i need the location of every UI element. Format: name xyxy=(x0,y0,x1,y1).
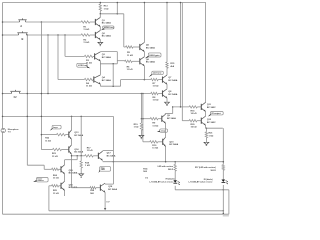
resistor R1 label xyxy=(83,26,89,31)
resistor R20 label xyxy=(191,124,197,129)
wire bus C row to R8 xyxy=(20,93,151,95)
transistor Q2 xyxy=(95,30,100,39)
svg-text:IR (diode): IR (diode) xyxy=(204,179,213,181)
resistor R19 (to ground) xyxy=(140,119,142,131)
resistor R26 label xyxy=(90,190,95,195)
svg-text:10 kΩ: 10 kΩ xyxy=(191,113,197,115)
wire keying line B (right) to R2 xyxy=(27,34,82,36)
node C label xyxy=(14,97,18,99)
wire microphone row xyxy=(2,116,114,118)
resistor R6 label xyxy=(127,66,133,71)
wire LED1 down and right xyxy=(175,186,229,191)
callout keyer xyxy=(33,178,48,183)
resistor R18 label xyxy=(85,162,90,167)
wire Q13 base row xyxy=(41,134,57,136)
resistor R23 label xyxy=(52,153,58,158)
wire Q2 emitter down xyxy=(99,40,101,43)
wire bus x65 to Q3 base row xyxy=(65,35,84,56)
wire Q16 emitter stub xyxy=(64,191,66,197)
svg-text:BC 546A: BC 546A xyxy=(102,56,111,59)
wire LED2 down to ground rail xyxy=(223,185,225,214)
transistor Q8 label xyxy=(168,91,177,96)
resistor R21 (emitter) xyxy=(205,128,207,142)
transistor Q17 xyxy=(98,151,102,160)
wire bottom ground rail (frame bottom) xyxy=(3,213,229,215)
svg-text:IR output: IR output xyxy=(212,112,221,115)
svg-text:BC 546A: BC 546A xyxy=(102,35,111,38)
svg-text:11 kΩ: 11 kΩ xyxy=(152,125,158,127)
svg-text:amp: amp xyxy=(161,130,166,132)
svg-text:L-7113SA-BT built-in resistor: L-7113SA-BT built-in resistor xyxy=(188,181,212,184)
transistor Q9 xyxy=(162,114,166,123)
svg-text:B: B xyxy=(22,37,24,41)
transistor Q9 label xyxy=(167,115,176,120)
callout keyed tone xyxy=(149,71,164,77)
resistor R17 xyxy=(85,155,99,157)
transistor Q3 label xyxy=(102,54,111,59)
svg-text:11 kΩ: 11 kΩ xyxy=(87,150,93,152)
wire x117 top drop xyxy=(117,2,119,14)
wire Q9 emitter to Q10 collector xyxy=(165,123,167,137)
transistor Q12 xyxy=(201,116,205,125)
wire R15 to Q7 collector xyxy=(166,68,168,75)
wire x167 V+ drop xyxy=(166,2,168,62)
wire x228.9 drop to ground rail xyxy=(228,190,230,214)
wire Q1 emitter to Q2 collector xyxy=(99,27,101,31)
ground below R19 xyxy=(139,135,144,138)
resistor R2 label xyxy=(83,39,89,44)
resistor R5 label xyxy=(127,52,133,57)
resistor R9 xyxy=(150,118,162,120)
wire Q14 base row xyxy=(41,148,52,151)
wire bus C row (left) xyxy=(2,93,12,95)
svg-text:BC 546A: BC 546A xyxy=(146,46,155,49)
resistor R6 xyxy=(125,60,140,62)
wire B-bus corner to Q15 row xyxy=(27,165,51,169)
transistor Q16 label xyxy=(69,185,78,190)
wire keying line B (left) xyxy=(2,34,19,36)
svg-text:10 kΩ: 10 kΩ xyxy=(191,127,197,129)
resistor R22 label xyxy=(45,138,51,143)
wire Q8 emitter down xyxy=(166,98,168,102)
resistor R15 (collector load) xyxy=(166,62,168,68)
transistor Q8 xyxy=(163,89,168,98)
wire Q9 base row xyxy=(141,118,151,120)
transistor Q17 label xyxy=(107,153,116,158)
svg-text:11 kΩ: 11 kΩ xyxy=(86,86,92,88)
resistor R19 label xyxy=(134,124,139,129)
node A label xyxy=(20,24,22,28)
wire x180 V+ drop xyxy=(180,2,182,107)
wire Q7 emitter to Q8 collector xyxy=(166,84,168,89)
svg-text:BC 546A: BC 546A xyxy=(108,188,117,191)
wire x120 up to Q7 row xyxy=(121,79,151,86)
transistor Q2 label xyxy=(102,33,111,38)
wire Q14 emitter down xyxy=(71,154,73,188)
svg-text:A: A xyxy=(20,24,22,28)
wire Q1 collector up xyxy=(99,14,101,18)
svg-text:BC 546A: BC 546A xyxy=(107,154,116,157)
wire mic drop to Q17 base xyxy=(80,116,82,155)
wire Q15 emitter to Q16 collector xyxy=(64,174,66,181)
transistor Q13 xyxy=(69,130,72,139)
wire R19 ground stem xyxy=(140,130,142,135)
LED D2 label xyxy=(188,179,212,184)
svg-text:keys: keys xyxy=(101,168,105,170)
transistor Q11 label xyxy=(207,104,216,109)
svg-text:11 kΩ: 11 kΩ xyxy=(127,55,133,57)
wire x117 mid drop xyxy=(116,52,118,64)
wire left supply rail (frame left) xyxy=(2,3,4,215)
svg-text:BC 546A: BC 546A xyxy=(69,172,78,175)
svg-text:BC 549C: BC 549C xyxy=(207,106,216,109)
svg-text:R17 (LED with resistor): R17 (LED with resistor) xyxy=(195,166,216,169)
transistor Q6 xyxy=(140,57,145,66)
resistor R22 xyxy=(57,133,69,135)
callout LOW batt xyxy=(50,125,61,130)
wire x48.9 to bottom bus xyxy=(48,186,50,211)
svg-text:1 kΩ: 1 kΩ xyxy=(134,127,139,129)
callout LOW freq xyxy=(77,63,90,68)
svg-text:BC 546A: BC 546A xyxy=(168,93,177,96)
resistor R7 label xyxy=(153,83,159,88)
resistor R13 (collector load) xyxy=(99,2,101,14)
svg-text:11 kΩ: 11 kΩ xyxy=(83,29,89,31)
svg-text:1 kΩ: 1 kΩ xyxy=(104,8,109,10)
wire bus from node B down-left column xyxy=(26,35,28,165)
wire bus x58 to Q4 base row xyxy=(58,35,84,80)
transistor Q7 label xyxy=(168,77,177,82)
wire Q10 base row xyxy=(143,141,150,143)
svg-text:1 kΩ: 1 kΩ xyxy=(85,165,90,167)
wire Q18 emitter to bus with arrow xyxy=(104,192,106,210)
svg-text:BC 549C: BC 549C xyxy=(207,121,216,124)
resistor R2 xyxy=(81,34,95,36)
resistor R12 right note xyxy=(195,166,216,172)
wire keying line A (right) to R1 xyxy=(26,21,82,23)
resistor R20 xyxy=(189,120,201,122)
resistor R7 xyxy=(151,78,163,80)
wire Q11 base row xyxy=(173,106,189,108)
wire x182 V+ drop xyxy=(181,3,183,121)
resistor R4 label xyxy=(86,82,92,88)
transistor Q1 xyxy=(95,17,100,26)
wire Q4 emitter route xyxy=(100,84,120,87)
svg-text:11 kΩ: 11 kΩ xyxy=(152,148,158,150)
transistor Q16 xyxy=(61,181,65,190)
wire LED1 branch top xyxy=(174,162,176,165)
resistor R9 label xyxy=(152,123,158,128)
wire Q13 emitter to Q14 collector xyxy=(71,139,73,145)
svg-text:BC 546A: BC 546A xyxy=(168,79,177,82)
resistor R24 label xyxy=(53,174,59,180)
resistor R5 xyxy=(124,46,140,48)
wire Q11 emitter to Q12 collector xyxy=(205,112,207,117)
wire x113 drop xyxy=(112,64,114,86)
wire LED2 branch xyxy=(223,128,225,164)
wire bottom-right stub xyxy=(223,215,229,217)
transistor Q13 label xyxy=(74,132,83,137)
wire right V+ drop to Q11 collector xyxy=(205,3,207,103)
svg-text:HIGH freq: HIGH freq xyxy=(104,26,114,29)
svg-text:BC 546A: BC 546A xyxy=(102,22,111,25)
wire Q17 base row xyxy=(71,155,85,157)
wire Q12 emitter down xyxy=(206,125,223,129)
wire Q17 emitter output row xyxy=(103,161,224,163)
wire Q17 collector corner xyxy=(103,149,114,151)
pushbutton switch B xyxy=(17,31,27,35)
wire P2 inter-stage tap xyxy=(100,63,117,65)
wire bus from node A down xyxy=(40,22,42,149)
svg-text:560 Ω: 560 Ω xyxy=(211,170,217,172)
resistor R17 label xyxy=(87,148,93,153)
callout LM386 xyxy=(157,129,168,132)
wire Q12 base row xyxy=(182,120,189,122)
wire Q5 collector rail to top xyxy=(144,2,146,43)
svg-text:LOW freq: LOW freq xyxy=(78,64,88,67)
wire top V+ rail (frame top) xyxy=(3,2,206,4)
resistor R8 xyxy=(151,92,163,94)
svg-text:BC 546A: BC 546A xyxy=(74,134,83,137)
svg-text:HIGH gain: HIGH gain xyxy=(149,55,160,57)
wire Q6 emitter down to Q7 row xyxy=(143,66,145,80)
ground below Q2 xyxy=(98,42,103,45)
transistor Q12 label xyxy=(207,119,216,124)
resistor R1 xyxy=(81,21,95,23)
wire x141 drop xyxy=(140,94,142,119)
transistor Q14 xyxy=(69,145,72,154)
resistor R10 xyxy=(150,141,163,143)
resistor R15 label xyxy=(170,63,175,68)
svg-text:11 kΩ: 11 kΩ xyxy=(53,178,59,180)
pushbutton switch A xyxy=(18,18,26,22)
wire Q13 collector rail up xyxy=(71,116,73,130)
svg-text:add tone: add tone xyxy=(153,72,163,75)
resistor R23 xyxy=(53,148,69,150)
ground below R21 xyxy=(204,142,209,145)
svg-text:11 kΩ: 11 kΩ xyxy=(53,193,59,195)
resistor R18 (bias to ground) xyxy=(80,156,82,174)
svg-text:LED with resistor: LED with resistor xyxy=(158,165,174,168)
transistor Q5 label xyxy=(146,45,155,50)
wire x123 drop from Q1 feed xyxy=(123,14,125,47)
transistor Q18 xyxy=(100,183,105,192)
resistor R11 right note xyxy=(158,165,174,171)
resistor R24 xyxy=(52,168,61,170)
wire bottom signal bus xyxy=(49,210,224,212)
svg-text:BC 546A: BC 546A xyxy=(167,117,176,120)
svg-text:L-7113SA-BT built-in resistor: L-7113SA-BT built-in resistor xyxy=(149,181,173,184)
ground below R18 xyxy=(79,174,84,177)
microphone MIC1 xyxy=(1,128,5,132)
transistor Q11 xyxy=(201,102,205,111)
transistor Q6 label xyxy=(146,59,155,64)
svg-text:11 kΩ: 11 kΩ xyxy=(127,69,133,71)
LED D2 (IR) xyxy=(222,180,228,185)
node B label xyxy=(22,37,24,41)
transistor Q15 xyxy=(61,165,65,174)
svg-text:keyer: keyer xyxy=(38,178,43,180)
LED D1 (red) xyxy=(173,180,179,185)
wire mic row corner down xyxy=(112,116,114,161)
resistor R13 value label xyxy=(104,6,109,11)
transistor Q14 label xyxy=(74,148,83,154)
wire bus x48 xyxy=(47,35,49,94)
wire Q18 collector link xyxy=(105,161,113,184)
wire Q1 collector feed xyxy=(100,13,124,15)
microphone MIC1 label xyxy=(8,129,19,134)
wire Q10 emitter down to output row xyxy=(165,146,167,161)
resistor R4 xyxy=(84,78,93,80)
resistor R25 label xyxy=(53,190,59,195)
transistor Q15 label xyxy=(69,170,78,175)
wire Q16 base row xyxy=(49,185,52,187)
resistor R16 xyxy=(189,106,201,108)
svg-text:BC 546A: BC 546A xyxy=(102,79,111,82)
wire Q15 collector link xyxy=(65,156,78,165)
resistor R25 xyxy=(52,185,61,187)
transistor Q4 label xyxy=(102,76,111,82)
callout IR out xyxy=(208,112,223,117)
transistor Q10 xyxy=(163,137,166,146)
pushbutton switch C xyxy=(10,90,20,94)
transistor Q18 label xyxy=(108,186,117,191)
callout to speaker xyxy=(98,167,110,173)
transistor Q3 xyxy=(95,52,101,61)
wire x142.9 drop xyxy=(142,94,144,142)
wire Q3 emitter to Q4 collector xyxy=(99,61,101,75)
resistor R10 label xyxy=(152,145,158,150)
callout MIC gain xyxy=(145,53,161,59)
wire R11 to LED1 xyxy=(174,171,176,180)
transistor Q5 xyxy=(140,42,145,51)
svg-text:560 Ω: 560 Ω xyxy=(168,169,174,171)
svg-text:BC 546A: BC 546A xyxy=(74,151,83,154)
resistor R11 label xyxy=(143,167,148,173)
resistor R3 label xyxy=(86,60,92,65)
svg-text:11 kΩ: 11 kΩ xyxy=(45,140,51,142)
node 0V label xyxy=(106,202,110,204)
resistor R21 label xyxy=(209,133,214,138)
transistor Q1 label xyxy=(102,20,111,25)
wire keying line A (left) xyxy=(2,21,20,23)
resistor R3 xyxy=(84,55,94,57)
svg-text:BC 546A: BC 546A xyxy=(146,61,155,64)
transistor Q10 label xyxy=(169,141,178,146)
svg-text:1 kΩ: 1 kΩ xyxy=(209,135,214,137)
resistor R11 (LED1 series) xyxy=(174,165,176,172)
svg-text:BC 546A: BC 546A xyxy=(169,143,178,146)
wire to R6 row xyxy=(117,60,124,63)
transistor Q7 xyxy=(163,75,168,84)
wire Q14 emitter corner to Q18 base xyxy=(72,187,91,189)
resistor R26 xyxy=(90,187,100,189)
svg-text:11 kΩ: 11 kΩ xyxy=(52,156,58,158)
resistor R16 label xyxy=(191,110,197,115)
wire Q3 collector top link xyxy=(100,51,117,53)
svg-text:11 kΩ: 11 kΩ xyxy=(153,86,159,88)
LED D1 label xyxy=(149,179,174,184)
svg-text:T 8: T 8 xyxy=(8,131,11,133)
callout HIGH freq xyxy=(101,26,114,30)
resistor R8 label xyxy=(153,97,159,102)
wire R12 to LED2 xyxy=(222,170,224,179)
svg-text:IR (diode): IR (diode) xyxy=(166,179,175,181)
resistor R12 (LED2 series) xyxy=(222,165,224,171)
svg-text:11 kΩ: 11 kΩ xyxy=(83,42,89,44)
wire Q9 collector link xyxy=(165,106,174,113)
transistor Q4 xyxy=(94,75,101,84)
LED D1 note left xyxy=(145,178,148,180)
wire Q5 emitter to Q6 collector xyxy=(143,52,145,57)
svg-text:11 kΩ: 11 kΩ xyxy=(153,100,159,102)
ground below Q8 xyxy=(165,102,170,105)
